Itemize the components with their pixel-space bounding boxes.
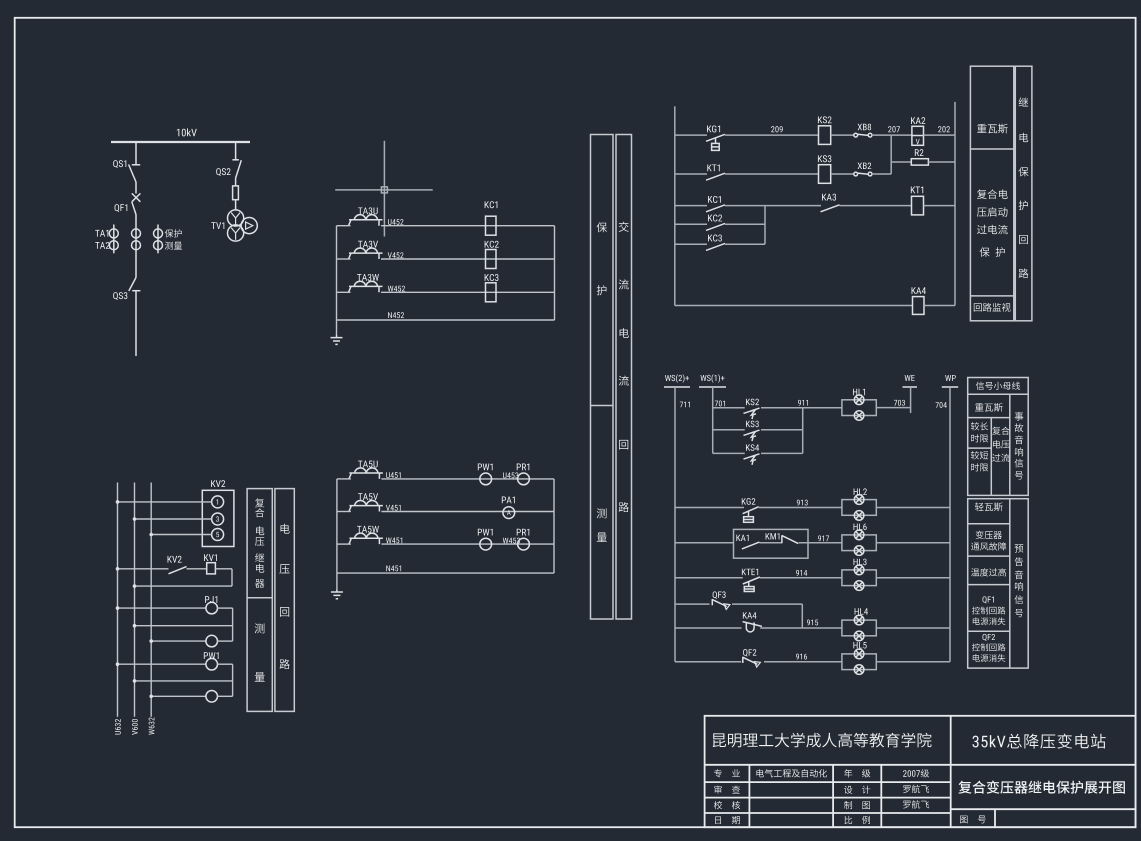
label TA1 [95, 230, 108, 237]
label QF2 [743, 649, 756, 657]
wire R2 a [891, 161, 911, 163]
label zhitu [844, 801, 870, 809]
wire KA1 mid [759, 542, 782, 544]
wire KA1 b [799, 542, 842, 544]
label shencha [714, 785, 740, 793]
contact KC3 [706, 243, 725, 250]
wire KA2-rail [924, 134, 956, 136]
terminal WS1 [699, 386, 726, 388]
relay coil KS2 [819, 126, 831, 145]
box KA1KM1 [734, 529, 809, 558]
label WS1 [700, 374, 724, 383]
wire 911-HL1 [803, 407, 842, 409]
label TA2 [95, 242, 109, 249]
contact KV2 [169, 567, 187, 574]
wire QF3 b [732, 604, 802, 628]
label QF1 [115, 204, 128, 212]
voltage bus U [117, 483, 119, 717]
contact KA3 [821, 205, 840, 212]
wire PW1 row [116, 662, 207, 666]
label V452 [388, 252, 404, 258]
wire KS2 b [761, 407, 803, 409]
label KC2 [708, 215, 722, 222]
label 预 sgB [1015, 544, 1024, 552]
label 继 rp [1019, 97, 1029, 106]
wire W451 [337, 543, 554, 545]
box signal bus A [968, 378, 1028, 496]
label TA5U [358, 461, 378, 468]
label celiang [165, 242, 182, 250]
CT TA5W [349, 538, 383, 544]
label V451 [386, 505, 401, 511]
terminal 3 [212, 513, 224, 525]
wire HL6-WP [876, 542, 950, 544]
label KM1 [766, 533, 780, 539]
label HL3 [853, 559, 866, 566]
wire terminal 5 [149, 533, 211, 537]
label KC1 [708, 196, 721, 203]
label luohangfei2 [903, 800, 929, 808]
resistor R2 [911, 159, 928, 165]
label KT1 coil [911, 187, 923, 194]
CT on feeder [132, 229, 141, 250]
wire terminal 1 [116, 500, 212, 504]
label KTE1 [742, 569, 758, 575]
meter PR1 w [518, 538, 530, 550]
label huilujianshi [974, 303, 1011, 312]
link XB8 [854, 133, 872, 137]
label TA5W [357, 526, 379, 533]
label 回 rp [1019, 235, 1028, 244]
contact KS2 [744, 408, 760, 413]
label 音 sgB [1015, 570, 1023, 579]
label 913 [797, 500, 808, 506]
label KS2 [746, 399, 759, 406]
ground TA3 [331, 335, 343, 344]
wire V451 [337, 511, 554, 513]
wire KS4 a [713, 452, 745, 454]
CT TA5U [349, 473, 383, 479]
label W452 [388, 286, 405, 292]
CT protection/measure [154, 225, 163, 254]
wire U452 row [337, 225, 555, 227]
label HL1 [853, 389, 865, 395]
label XB2 [858, 163, 872, 169]
label KA3 [822, 194, 836, 201]
latching contact KA4 [743, 622, 762, 632]
relay coil KV1 [207, 563, 216, 574]
wire N451 [337, 572, 554, 574]
label KS3 [746, 421, 759, 428]
terminal WE [903, 387, 918, 413]
label bili [845, 816, 870, 824]
CT TA3V [349, 253, 383, 259]
label QS2 [216, 168, 230, 176]
label W451 [386, 537, 402, 543]
label KG2 [742, 498, 756, 505]
label celiang2 [255, 623, 265, 633]
voltage transformer TV1 [228, 210, 258, 241]
label 701 [715, 401, 725, 407]
label wendu [971, 568, 1006, 576]
wire KV2 row b [187, 568, 207, 570]
label 事 sgA [1015, 412, 1024, 421]
label 路 rp [1019, 268, 1029, 278]
label HL4 [855, 608, 868, 614]
relay coil KS3 [819, 165, 831, 184]
disconnector QS3 [129, 278, 141, 357]
wire XB2-node [872, 173, 891, 175]
label HL6 [853, 524, 866, 530]
wire R2 b [928, 161, 955, 163]
crosshair cursor [335, 141, 433, 237]
label jiaochang [971, 422, 988, 430]
label baohu col [597, 222, 608, 232]
lamp HL2 [842, 500, 876, 516]
label HL2 [854, 488, 867, 494]
box signal bus B [968, 499, 1028, 668]
label KS3 [818, 155, 831, 162]
label KV1 [204, 554, 217, 561]
contact KS4 [744, 454, 760, 459]
label PW1 w [478, 529, 493, 536]
wire U451 [337, 478, 554, 480]
rail WS2 [674, 387, 676, 662]
right rail minus [954, 102, 956, 306]
label zhongwasi2 [975, 403, 1003, 412]
relay box KV2 [202, 490, 234, 546]
label TA3W [357, 274, 379, 281]
box relay-protection right [1015, 66, 1032, 321]
wire rowKC1 b [725, 205, 821, 207]
label QF1 cell [982, 596, 993, 603]
label 704 [936, 402, 947, 408]
relay coil KT1 [912, 196, 924, 215]
label 2007 [903, 769, 929, 777]
wire HL2-WP [876, 507, 950, 509]
label N451 [386, 565, 401, 571]
wire PJ1 mid [133, 624, 233, 628]
wire row209 b [725, 134, 819, 136]
disconnector QS1 [129, 142, 141, 182]
label 914 [796, 570, 807, 576]
label 915 [807, 620, 818, 626]
relay coil KC1 [486, 216, 497, 235]
wire row209 a [675, 134, 707, 136]
label KT1 contact [707, 164, 719, 171]
wire terminal 3 [133, 517, 212, 521]
label PR1 u [517, 464, 530, 471]
label PW1 meter [204, 652, 219, 659]
label 711 [680, 402, 690, 408]
left bus TA5 [336, 479, 338, 589]
wire KS3 a [713, 429, 745, 431]
wire KA4 a [675, 627, 742, 629]
label celiang col [597, 508, 607, 518]
label 响 sgA [1015, 448, 1023, 457]
label 电 vc [281, 524, 290, 534]
label KS4 [746, 444, 759, 451]
voltage bus V [134, 483, 136, 717]
wire KS2 a [713, 407, 745, 409]
wire KS3-XB2 [831, 173, 854, 175]
label 流 col [619, 279, 629, 289]
wire PJ1b right [217, 640, 233, 642]
wire rowKA4 b [924, 305, 955, 307]
breaker aux contact QF3 [712, 599, 730, 609]
gas relay contact KG1 [706, 134, 725, 150]
label TA3V [358, 241, 378, 248]
label WP [945, 375, 956, 381]
wire HL5-WP [876, 661, 950, 663]
label 号 sgA [1015, 471, 1023, 479]
label 911 [798, 400, 808, 406]
rail WP [949, 387, 951, 662]
wire KA4 b [760, 627, 842, 629]
wire KG2 a [675, 507, 744, 509]
wire rowKC1 d [924, 205, 956, 207]
terminal 1 [212, 496, 224, 508]
box AC current circuit column [616, 135, 632, 620]
label school [713, 733, 932, 748]
label sheji [844, 786, 870, 794]
wire PJ1 low [149, 639, 206, 643]
label luohangfei1 [903, 785, 929, 793]
right bus TA5 [553, 479, 555, 573]
node 911 vertical [802, 408, 804, 454]
wire KV2 row c [133, 569, 232, 588]
label zhuanye [714, 769, 740, 777]
wire rowKT1 a [675, 173, 707, 175]
right bus TA3 [554, 226, 556, 320]
label bianyaqi [976, 531, 1002, 539]
box voltage circuit col [275, 489, 294, 712]
terminal 5 [212, 529, 224, 541]
wire HL3-WP [876, 577, 950, 579]
wire PW1 right [217, 664, 233, 696]
label U632 [115, 719, 121, 735]
label PR1 w [517, 529, 530, 536]
label baohu [165, 229, 182, 237]
label 保 rp [1018, 167, 1028, 177]
voltage bus W [150, 483, 152, 717]
lamp HL1 [842, 400, 876, 416]
lamp HL5 [842, 654, 876, 670]
label TA5V [358, 493, 378, 500]
label major [756, 769, 826, 777]
wire KV2 row a [116, 567, 169, 571]
meter PJ1 [206, 602, 218, 614]
label HL5 [853, 642, 866, 648]
box protection-measure column [591, 135, 614, 620]
label 电 col [620, 328, 629, 338]
wire PJ1 row [116, 606, 207, 610]
time contact KTE1 [743, 577, 760, 592]
label KG1 [707, 125, 720, 132]
label 压 vc [279, 564, 289, 574]
wire V452 row [337, 258, 555, 260]
label 10kV [177, 128, 197, 136]
label KA4 coil [912, 287, 926, 294]
gas relay contact KG2 [743, 507, 759, 523]
contact KM1 [782, 535, 798, 543]
ground TA5 [331, 589, 343, 599]
wire QF2 b [764, 661, 842, 663]
label 信 sgB [1015, 595, 1024, 604]
bus 10kV [111, 141, 250, 143]
label KA2 [911, 117, 925, 124]
wire QF2 a [675, 661, 741, 663]
box voltage relay col [247, 489, 272, 712]
label PW1 u [478, 464, 493, 471]
meter PW1b [206, 691, 218, 703]
wire KS3 b [761, 429, 803, 431]
label 202 [938, 126, 950, 132]
wire rowKC1 c [840, 205, 912, 207]
label TA3U [358, 207, 378, 214]
contact KC1 [706, 205, 725, 212]
left bus TA3 [336, 226, 338, 335]
relay KA2 [912, 126, 924, 145]
wire HL1-WE [876, 407, 910, 409]
wire KTE1 a [675, 577, 743, 579]
label PJ1 [205, 596, 217, 603]
wire KS4 b [761, 452, 803, 454]
label 告 sgB [1015, 557, 1023, 566]
label zhongwasi [977, 124, 1008, 134]
meter PW1 w [480, 538, 492, 550]
label nianji [844, 769, 870, 777]
label 号 sgB [1015, 609, 1023, 617]
label QF3 [713, 591, 726, 599]
label U453 [503, 472, 518, 478]
title rows lines [705, 765, 1136, 827]
label XB8 [858, 124, 872, 131]
meter PW1 [206, 658, 218, 670]
wire rowKT1 b [725, 173, 819, 175]
label W632 [149, 717, 155, 734]
label riqi [715, 816, 740, 824]
wire PW1 low [149, 695, 206, 699]
label 回 vc [280, 607, 289, 617]
relay coil KC3 [486, 283, 497, 302]
label KC2 [485, 241, 499, 248]
label 703 [894, 400, 905, 406]
terminal WS2 [664, 386, 690, 388]
label 响 sgB [1015, 582, 1023, 591]
label PA1 [502, 497, 515, 504]
link XB2 [854, 172, 872, 176]
label KC1 [485, 201, 498, 208]
wire N452 [337, 319, 555, 321]
label 电 rp [1020, 133, 1029, 142]
label KV2 contact [168, 556, 182, 563]
label U451 [386, 472, 400, 478]
label 护 rp [1019, 201, 1028, 211]
wire HL4-WP [876, 627, 950, 629]
lamp HL3 [842, 570, 876, 586]
wire KTE1 b [760, 577, 842, 579]
left rail plus [674, 106, 676, 305]
label station [972, 734, 1105, 749]
label xiaohe [714, 801, 740, 809]
wire PW1 mid [133, 679, 233, 683]
terminal WP [942, 386, 958, 388]
CT TA5V [349, 506, 383, 512]
label KA1 [736, 535, 748, 541]
label R2 [915, 149, 924, 156]
wire KG2 b [759, 507, 842, 509]
label tuhao [960, 816, 986, 824]
label W453 [503, 538, 520, 544]
label QF2 cell [982, 634, 995, 641]
label 故 sgA [1015, 423, 1024, 432]
label KA4 contact [743, 612, 757, 618]
contact KS3 [744, 430, 760, 435]
CT TA3U [349, 220, 383, 226]
label 流 col [619, 376, 629, 386]
label WE [905, 375, 915, 381]
contact KA1 [742, 542, 760, 549]
label jiaoduan [971, 451, 988, 459]
wire rowKC3 [675, 243, 765, 245]
label 207 [888, 126, 900, 132]
label V600 [132, 719, 138, 735]
wire QF3 a [675, 603, 710, 605]
label fuhe block [977, 189, 1008, 199]
label U452 [388, 219, 404, 225]
wire KS2-XB8 [831, 134, 854, 136]
meter PR1 u [518, 473, 530, 485]
contact KT1 [706, 173, 725, 180]
label KS2 [818, 116, 832, 123]
wire XB8-KA2 [872, 134, 912, 136]
node 207 vertical [890, 135, 892, 174]
fuse FU [233, 186, 239, 210]
node KC vertical [764, 206, 766, 245]
label qingwasi [975, 502, 1003, 511]
label drawing title [958, 781, 1125, 794]
CT TA3W [349, 286, 383, 292]
label fuhedianyaguoliu [992, 427, 1009, 435]
box relay-protection left [970, 66, 1013, 321]
meter PA1 [503, 507, 515, 519]
wire rowKC1 a [675, 205, 707, 207]
meter PJ1b [206, 635, 218, 647]
label WS2 [665, 374, 689, 383]
rail WS1 [712, 387, 714, 453]
label 209 [771, 126, 783, 132]
label 路 col [619, 502, 629, 512]
label 信 sgA [1015, 459, 1024, 468]
title block frame [705, 716, 1136, 827]
label KV2 box [211, 480, 225, 487]
label 音 sgA [1015, 435, 1023, 444]
label 交 col [619, 222, 629, 232]
relay coil KC2 [486, 250, 497, 269]
label QS3 [113, 292, 127, 300]
label KC3 [485, 274, 499, 281]
circuit breaker QF1 [132, 182, 141, 278]
meter PW1 u [480, 473, 492, 485]
label 路 vc [280, 659, 290, 669]
CT TA1 [109, 225, 118, 254]
label QS1 [113, 160, 126, 168]
label fuhedianyajidianqi [255, 498, 264, 507]
label xinhaoxiaomuxian [976, 382, 1020, 390]
wire rowKA4 a [675, 305, 913, 307]
wire KA1 a [675, 542, 734, 544]
